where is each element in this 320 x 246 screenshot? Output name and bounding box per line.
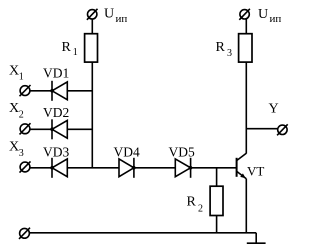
resistor R3 xyxy=(239,34,252,62)
label VD5 xyxy=(169,144,195,159)
label VT xyxy=(247,163,264,178)
wire VD5 to base of VT xyxy=(191,167,237,169)
diode VD4 xyxy=(119,158,136,178)
svg-text:1: 1 xyxy=(73,47,78,58)
svg-text:3: 3 xyxy=(227,48,232,59)
wire bottom rail xyxy=(29,232,256,234)
label R2 xyxy=(187,194,204,214)
resistor R1 xyxy=(85,34,98,62)
svg-text:R: R xyxy=(62,40,72,55)
label R3 xyxy=(216,40,233,59)
svg-text:Y: Y xyxy=(269,102,279,117)
svg-text:X: X xyxy=(9,101,19,116)
svg-text:U: U xyxy=(258,7,268,22)
svg-text:U: U xyxy=(104,6,114,21)
resistor R2 xyxy=(210,186,223,215)
wire R1 bottom to node A bus xyxy=(91,62,93,168)
terminal X2 xyxy=(20,123,31,134)
wire emitter to rail xyxy=(245,179,247,233)
terminal X1 xyxy=(20,85,31,96)
terminal X3 xyxy=(20,161,31,172)
terminal common (bottom left) xyxy=(19,228,30,239)
wire VD3 to VD4 (through node A) xyxy=(67,167,119,169)
diode VD3 xyxy=(50,158,67,178)
wire X1 to VD1 xyxy=(30,90,52,92)
label VD3 xyxy=(43,144,69,159)
wire VD4 to VD5 xyxy=(134,167,175,169)
label VD1 xyxy=(43,66,69,81)
wire VD2 to bus xyxy=(67,128,93,130)
terminal Uип right supply xyxy=(239,9,250,20)
svg-text:ип: ип xyxy=(270,13,282,25)
svg-text:VD1: VD1 xyxy=(43,66,69,81)
wire X2 to VD2 xyxy=(30,128,52,130)
label Y xyxy=(269,102,279,117)
wire VD1 to bus xyxy=(67,90,93,92)
wire R3 bottom to collector xyxy=(245,62,247,153)
svg-text:2: 2 xyxy=(19,109,24,120)
label VD2 xyxy=(43,105,69,120)
transistor VT xyxy=(237,153,247,179)
svg-text:2: 2 xyxy=(198,203,203,214)
svg-text:ип: ип xyxy=(116,13,128,25)
label Uип (left) xyxy=(104,6,127,24)
diode VD2 xyxy=(50,119,67,139)
diode VD5 xyxy=(175,158,192,178)
wire supply-right to R3 xyxy=(245,19,247,34)
terminal Uип left supply xyxy=(87,9,98,20)
wire R2 bottom to rail xyxy=(216,216,218,233)
label X1 xyxy=(9,63,24,82)
svg-text:VD2: VD2 xyxy=(43,105,69,120)
label Uип (right) xyxy=(258,7,281,25)
wire X3 to VD3 xyxy=(30,167,52,169)
label X2 xyxy=(9,101,24,121)
wire supply-left to R1 xyxy=(91,19,93,34)
svg-text:VD3: VD3 xyxy=(43,144,69,159)
svg-text:X: X xyxy=(9,139,19,154)
wire collector to output Y xyxy=(246,128,277,130)
svg-text:R: R xyxy=(187,194,197,209)
svg-text:3: 3 xyxy=(19,148,24,159)
wire R2 tap xyxy=(216,168,218,186)
svg-text:X: X xyxy=(9,63,19,78)
svg-text:1: 1 xyxy=(19,71,24,82)
svg-text:VD5: VD5 xyxy=(169,144,195,159)
svg-text:VD4: VD4 xyxy=(114,144,140,159)
svg-text:VT: VT xyxy=(247,163,264,178)
diode VD1 xyxy=(50,81,67,101)
ground xyxy=(247,233,266,243)
svg-text:R: R xyxy=(216,40,226,55)
label X3 xyxy=(9,139,24,159)
label VD4 xyxy=(114,144,140,159)
label R1 xyxy=(62,40,78,58)
terminal Y xyxy=(277,124,288,135)
